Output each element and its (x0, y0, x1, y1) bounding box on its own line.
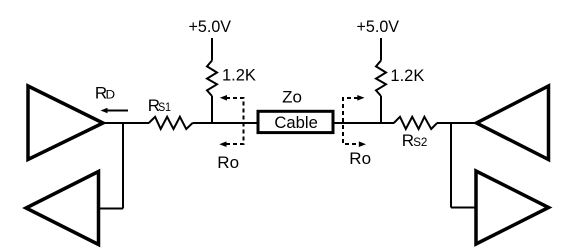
svg-text:Cable: Cable (274, 113, 318, 132)
svg-text:R: R (402, 131, 414, 150)
svg-text:1.2K: 1.2K (390, 67, 424, 85)
svg-text:S2: S2 (413, 135, 428, 149)
svg-text:+5.0V: +5.0V (189, 17, 232, 36)
svg-text:Ro: Ro (217, 153, 239, 172)
svg-text:+5.0V: +5.0V (357, 17, 400, 36)
svg-text:1.2K: 1.2K (222, 67, 256, 85)
svg-text:D: D (106, 87, 116, 101)
svg-text:Zo: Zo (282, 87, 302, 106)
svg-text:S1: S1 (158, 100, 171, 114)
svg-text:Ro: Ro (349, 149, 371, 168)
